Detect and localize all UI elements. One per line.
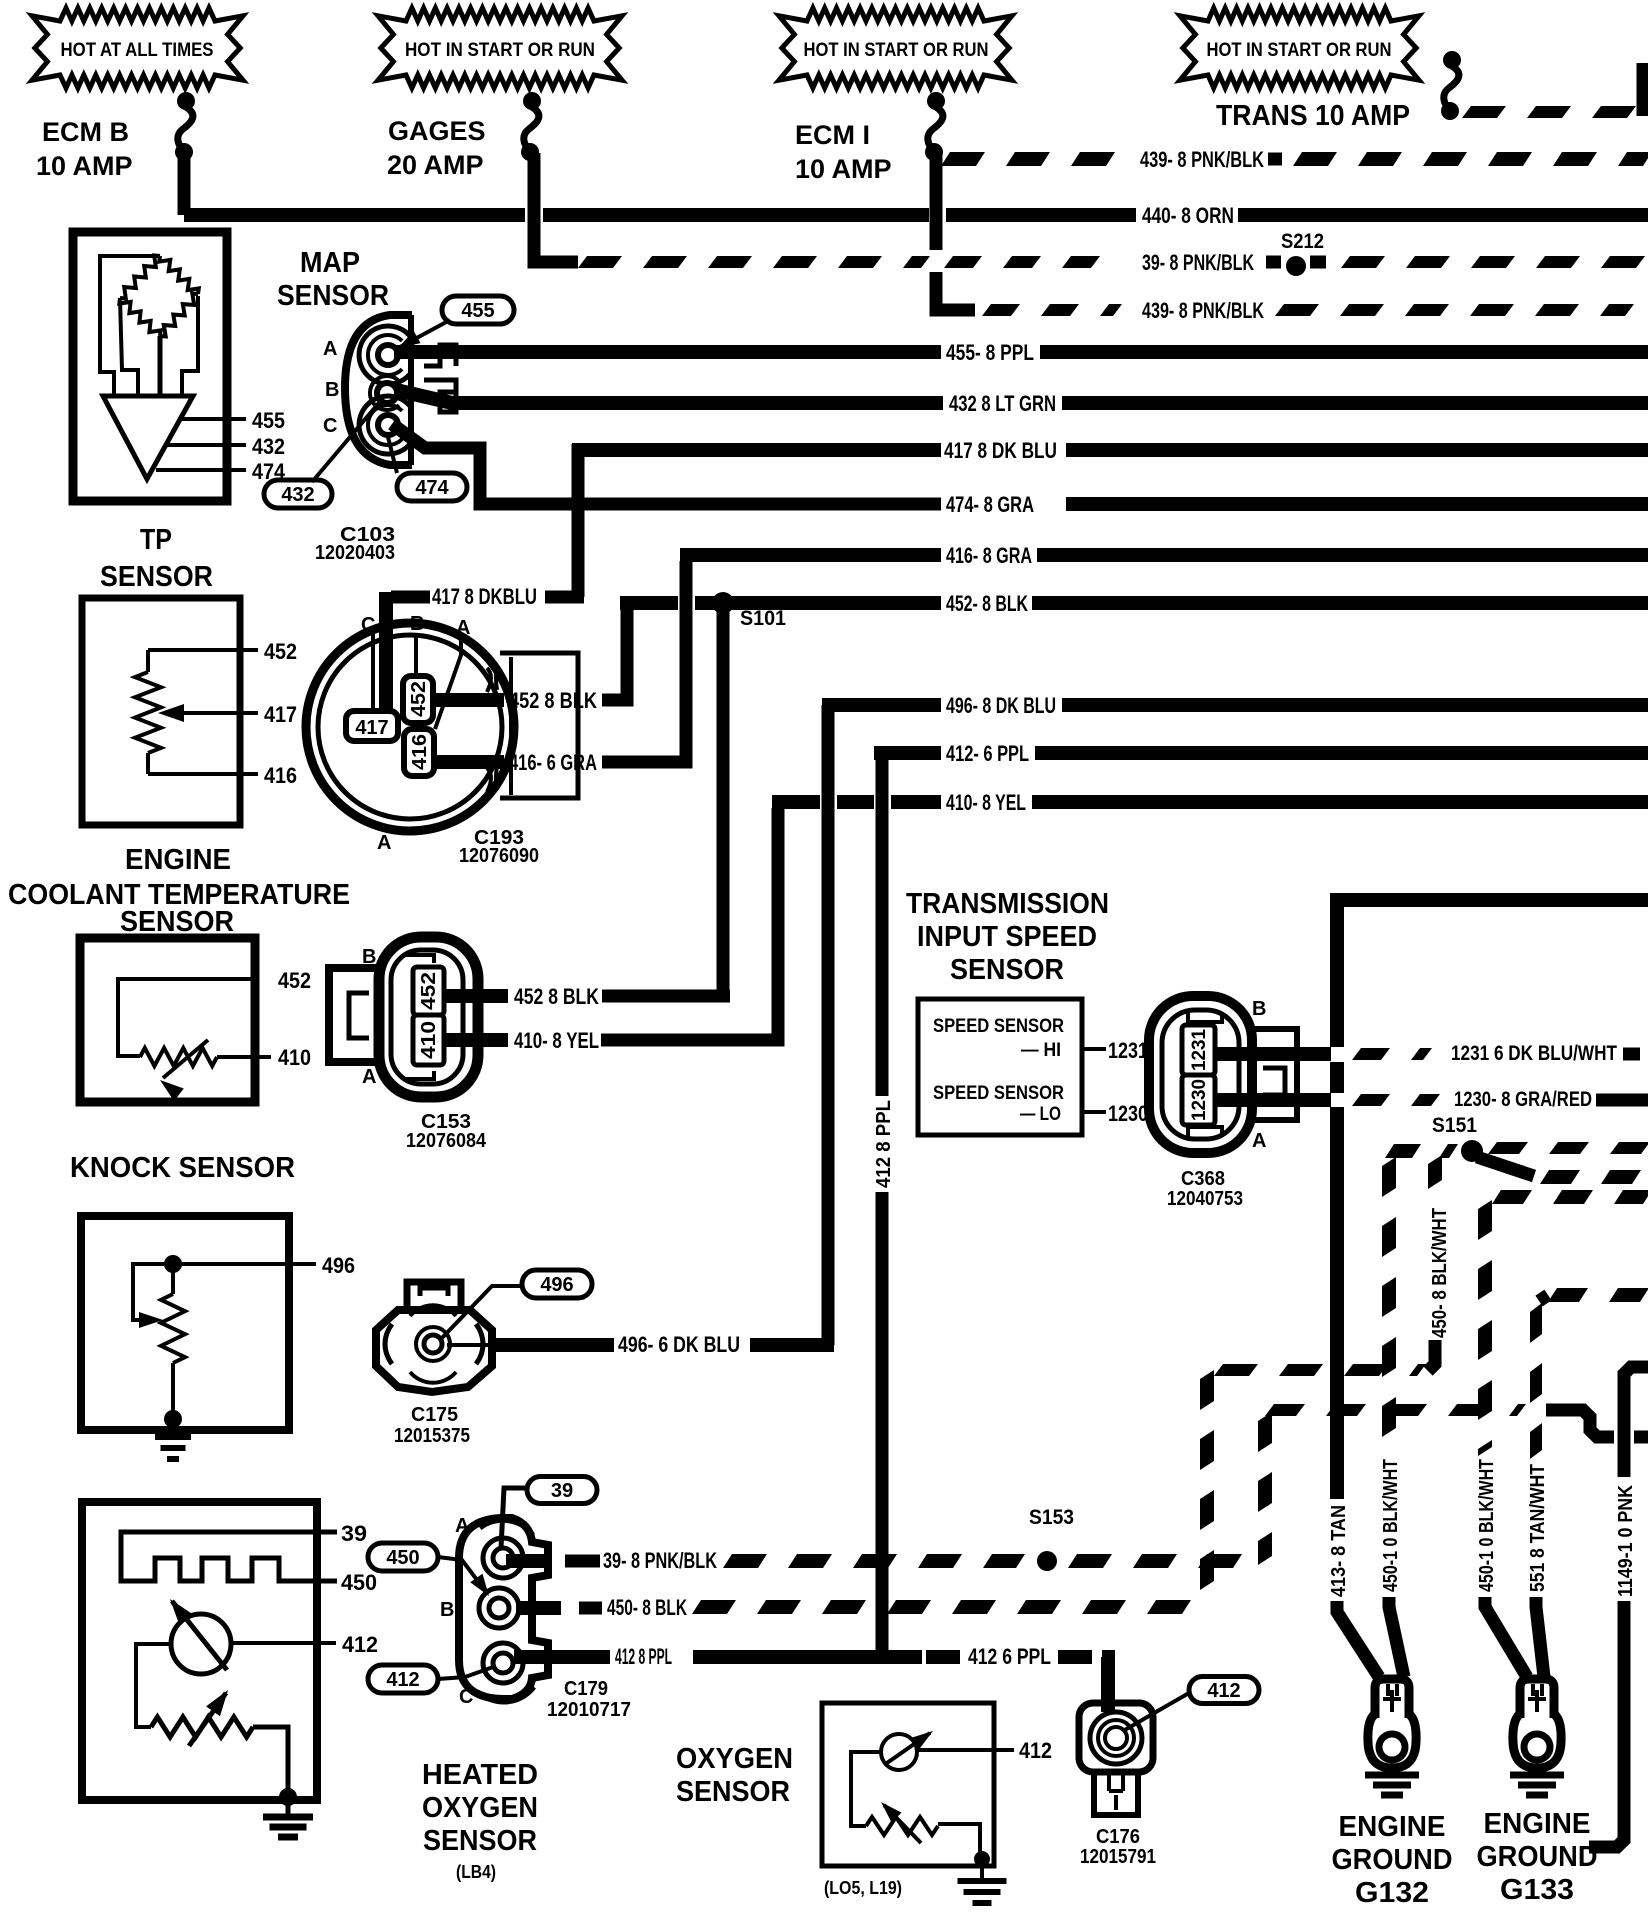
svg-text:G132: G132 bbox=[1355, 1877, 1429, 1909]
svg-text:HOT IN START OR RUN: HOT IN START OR RUN bbox=[1207, 40, 1392, 61]
svg-text:474: 474 bbox=[415, 477, 449, 499]
svg-text:412 8 PPL: 412 8 PPL bbox=[873, 1100, 895, 1188]
wire 450-8 BLK/WHT drop from S151 branch to lower network bbox=[1428, 1155, 1442, 1189]
svg-text:12020403: 12020403 bbox=[315, 542, 395, 564]
svg-text:410- 8 YEL: 410- 8 YEL bbox=[514, 1028, 599, 1053]
speed sensor lead lines bbox=[1082, 1047, 1106, 1051]
power label: HOT IN START OR RUN burst (ECM I) bbox=[779, 8, 1012, 88]
connector C368 body bbox=[1149, 996, 1252, 1153]
MAP bridge left loop wire bbox=[120, 298, 138, 394]
svg-text:551 8 TAN/WHT: 551 8 TAN/WHT bbox=[1527, 1464, 1549, 1592]
C368 top and bottom notches bbox=[1188, 1012, 1222, 1022]
pointer 412 to C176 pin bbox=[1123, 1693, 1189, 1731]
svg-text:SENSOR: SENSOR bbox=[950, 954, 1064, 986]
wire from ECM B fuse bbox=[178, 153, 191, 215]
svg-text:1231 6 DK BLU/WHT: 1231 6 DK BLU/WHT bbox=[1451, 1042, 1617, 1065]
svg-text:413- 8 TAN: 413- 8 TAN bbox=[1328, 1505, 1350, 1597]
HO2S lead 412 bbox=[231, 1641, 336, 1645]
svg-text:C175: C175 bbox=[411, 1404, 458, 1426]
svg-text:12015375: 12015375 bbox=[394, 1425, 470, 1447]
wire S101 drop to C153 452 bbox=[717, 609, 730, 996]
svg-text:455: 455 bbox=[461, 300, 494, 322]
C103 pin C bbox=[378, 415, 398, 435]
oval tag 450 bbox=[368, 1543, 438, 1571]
svg-text:417 8 DK BLU: 417 8 DK BLU bbox=[944, 438, 1057, 463]
pointer 39 to pin A bbox=[501, 1488, 527, 1548]
wire 416-8 GRA from C193 bbox=[432, 755, 504, 769]
svg-text:GAGES: GAGES bbox=[388, 116, 486, 146]
svg-text:TRANSMISSION: TRANSMISSION bbox=[906, 888, 1109, 920]
svg-text:A: A bbox=[362, 1066, 376, 1088]
svg-text:SENSOR: SENSOR bbox=[277, 280, 389, 312]
wire 432-8 LT GRN from C103 pin B bbox=[396, 390, 943, 403]
svg-text:1230: 1230 bbox=[1108, 1101, 1148, 1126]
svg-text:410: 410 bbox=[418, 1021, 440, 1059]
svg-text:GROUND: GROUND bbox=[1477, 1841, 1598, 1873]
wire 412-8 PPL from C179 pin C (solid) bbox=[514, 1650, 610, 1664]
svg-text:412: 412 bbox=[1019, 1738, 1052, 1763]
svg-text:416: 416 bbox=[264, 763, 297, 788]
svg-text:455: 455 bbox=[252, 408, 285, 433]
svg-text:(LO5, L19): (LO5, L19) bbox=[824, 1878, 902, 1898]
wire 551-8 TAN/WHT from edge down to G133 bbox=[1548, 1288, 1648, 1302]
C103 right retainer bracket bbox=[424, 345, 456, 366]
svg-text:452: 452 bbox=[278, 968, 311, 993]
svg-text:HOT IN START OR RUN: HOT IN START OR RUN bbox=[405, 40, 595, 61]
wire 417 down into C193 bbox=[379, 592, 393, 714]
wire 1231-8 DK BLU/WHT from C368 bbox=[1215, 1047, 1331, 1061]
svg-text:HOT AT ALL TIMES: HOT AT ALL TIMES bbox=[61, 40, 214, 61]
C153 left bracket bbox=[329, 968, 380, 1062]
svg-text:1231: 1231 bbox=[1108, 1038, 1148, 1063]
svg-text:C368: C368 bbox=[1181, 1168, 1225, 1190]
svg-text:B: B bbox=[440, 1599, 454, 1621]
svg-text:C: C bbox=[323, 415, 337, 437]
svg-text:C: C bbox=[361, 614, 375, 636]
svg-text:A: A bbox=[1252, 1130, 1266, 1152]
svg-text:A: A bbox=[377, 832, 391, 854]
C176 lower tail bbox=[1094, 1772, 1138, 1815]
svg-text:452 8 BLK: 452 8 BLK bbox=[514, 984, 599, 1009]
svg-text:416: 416 bbox=[409, 734, 431, 770]
TP wiper arrow 417 bbox=[172, 711, 258, 715]
MAP connector C103 body bbox=[345, 315, 412, 465]
svg-text:452: 452 bbox=[408, 681, 430, 717]
svg-text:450- 8 BLK/WHT: 450- 8 BLK/WHT bbox=[1429, 1208, 1451, 1338]
ECT thermistor circuit bbox=[118, 979, 251, 1056]
wire 417-8 DK BLU main run bbox=[572, 443, 941, 457]
C153 pin 452 box bbox=[413, 967, 444, 1015]
TP connector C193 outer circles bbox=[306, 623, 514, 831]
svg-text:SPEED SENSOR: SPEED SENSOR bbox=[933, 1016, 1064, 1037]
svg-text:G133: G133 bbox=[1500, 1874, 1574, 1906]
wire 412-8 PPL main run bbox=[874, 746, 941, 760]
wire 39 turns up at right bbox=[1258, 1412, 1272, 1565]
svg-text:— HI: — HI bbox=[1021, 1040, 1061, 1061]
MAP bridge outer loop wire bbox=[100, 256, 160, 394]
C179 pin B bbox=[489, 1598, 509, 1618]
wire 440-8 ORN (solid) bbox=[184, 208, 525, 222]
C175 center pin bbox=[424, 1335, 442, 1353]
svg-text:39: 39 bbox=[551, 1480, 573, 1502]
svg-text:20 AMP: 20 AMP bbox=[387, 150, 484, 180]
TP potentiometer bbox=[146, 650, 150, 672]
wire 496 vertical bbox=[822, 705, 835, 1345]
svg-text:S153: S153 bbox=[1029, 1506, 1074, 1529]
power label: HOT IN START OR RUN burst (GAGES) bbox=[378, 8, 622, 88]
svg-text:417: 417 bbox=[264, 702, 297, 727]
wire 39 dashed horizontal upper-right bbox=[1265, 1404, 1526, 1416]
ECT sensor box bbox=[80, 938, 255, 1102]
wire 410-8 YEL from C153 bbox=[446, 1033, 508, 1047]
C103 pin C arcs bbox=[359, 396, 411, 454]
wire 450 dashed right branch of S151 bbox=[1488, 1142, 1648, 1154]
svg-text:ENGINE: ENGINE bbox=[125, 844, 231, 876]
MAP amp output leads 455/432/474 bbox=[180, 417, 246, 421]
svg-text:A: A bbox=[323, 338, 337, 360]
wire 412 vertical (with inline rotated label) bbox=[876, 753, 889, 1096]
wire from GAGES fuse down to 39 circuit bbox=[534, 153, 578, 262]
svg-text:HEATED: HEATED bbox=[422, 1759, 538, 1791]
wire 413-8 TAN from right edge bbox=[1337, 900, 1648, 1047]
wire 452-8 BLK from C153 to S101 bbox=[444, 989, 508, 1003]
svg-text:OXYGEN: OXYGEN bbox=[422, 1792, 538, 1824]
C368 right bracket bbox=[1252, 1029, 1297, 1120]
svg-text:S212: S212 bbox=[1281, 230, 1324, 253]
knock connector C175 body bbox=[376, 1310, 492, 1392]
HO2S connector C179 body bbox=[459, 1518, 548, 1699]
wire 452-8 BLK from C193 bbox=[430, 693, 504, 707]
svg-text:12076084: 12076084 bbox=[406, 1130, 487, 1152]
C179 pin A bbox=[493, 1548, 513, 1568]
C103 pin A bbox=[378, 345, 398, 365]
svg-text:S101: S101 bbox=[740, 607, 786, 630]
oval tag 496 bbox=[522, 1270, 592, 1298]
wire 496-8 DK BLU main run bbox=[822, 698, 941, 712]
HO2S wire to ground bbox=[253, 1727, 288, 1793]
svg-text:10 AMP: 10 AMP bbox=[795, 154, 892, 184]
svg-text:1149-1 0 PNK: 1149-1 0 PNK bbox=[1615, 1485, 1637, 1597]
svg-text:12040753: 12040753 bbox=[1167, 1188, 1243, 1210]
MAP op-amp triangle bbox=[103, 396, 193, 479]
svg-text:455- 8 PPL: 455- 8 PPL bbox=[946, 340, 1034, 365]
svg-text:S151: S151 bbox=[1432, 1114, 1477, 1137]
svg-text:SENSOR: SENSOR bbox=[120, 906, 234, 938]
svg-text:450- 8 BLK: 450- 8 BLK bbox=[607, 1595, 687, 1620]
pointer 412 to pin C bbox=[438, 1666, 496, 1679]
wire 450-8 BLK from C179 pin B (dashed) bbox=[516, 1601, 561, 1615]
ECT connector C153 body bbox=[379, 937, 478, 1097]
svg-text:TRANS 10 AMP: TRANS 10 AMP bbox=[1216, 100, 1410, 132]
wire 439-8 PNK/BLK (upper dashed) bbox=[941, 152, 1115, 166]
svg-text:ECM B: ECM B bbox=[42, 117, 129, 147]
svg-text:ENGINE: ENGINE bbox=[1484, 1808, 1591, 1840]
C193 pin 452 box bbox=[403, 676, 433, 723]
C193 pin 416 box bbox=[404, 729, 434, 776]
wire from ECM I fuse down to 439 branch bbox=[930, 153, 943, 250]
svg-text:C179: C179 bbox=[564, 1678, 608, 1700]
wire 416-8 GRA main run bbox=[680, 548, 941, 562]
HO2S internal wire left bbox=[136, 1644, 171, 1727]
engine ground G133 lug bbox=[1520, 1679, 1554, 1718]
svg-text:410- 8 YEL: 410- 8 YEL bbox=[946, 790, 1026, 815]
svg-text:412 8 PPL: 412 8 PPL bbox=[615, 1644, 672, 1669]
svg-text:— LO: — LO bbox=[1020, 1104, 1061, 1125]
svg-text:439- 8 PNK/BLK: 439- 8 PNK/BLK bbox=[1142, 298, 1264, 323]
svg-text:452: 452 bbox=[418, 972, 440, 1010]
svg-text:C176: C176 bbox=[1096, 1826, 1140, 1848]
wire 474-8 GRA from C103 pin C bbox=[392, 424, 941, 504]
oval tag 412 (O2) bbox=[1189, 1677, 1259, 1704]
wire 439 from TRANS fuse (dashed, to right edge, up-turn) bbox=[1462, 106, 1636, 118]
wire 1149-1 0 PNK from edge bbox=[1624, 1367, 1648, 1477]
svg-text:450: 450 bbox=[386, 1547, 419, 1569]
power label: HOT AT ALL TIMES burst bbox=[32, 8, 243, 88]
pointer 496 to pin bbox=[440, 1286, 522, 1340]
wire 39-8 PNK/BLK from C179 pin A (dashed) bbox=[506, 1554, 549, 1568]
svg-text:450: 450 bbox=[341, 1570, 377, 1595]
wire 39-8 PNK/BLK (dashed) with splice S212 bbox=[578, 256, 930, 268]
O2 gauge circle bbox=[881, 1734, 917, 1770]
speed sensor box bbox=[918, 999, 1082, 1135]
fuse ECM B 10 AMP bbox=[177, 92, 195, 110]
wire 1230-8 GRA/RED from C368 bbox=[1215, 1093, 1331, 1107]
knock resistor bbox=[171, 1272, 175, 1294]
svg-text:1231: 1231 bbox=[1189, 1029, 1210, 1071]
svg-text:39- 8 PNK/BLK: 39- 8 PNK/BLK bbox=[603, 1548, 717, 1573]
svg-text:ENGINE: ENGINE bbox=[1339, 1811, 1446, 1843]
O2 wire to ground dot bbox=[938, 1824, 980, 1855]
svg-text:HOT IN START OR RUN: HOT IN START OR RUN bbox=[804, 40, 989, 61]
svg-text:B: B bbox=[362, 946, 376, 968]
svg-text:12076090: 12076090 bbox=[459, 845, 539, 867]
TP lead 452 bbox=[148, 648, 258, 652]
wire 413 diagonal into G132 bbox=[1337, 1601, 1379, 1677]
svg-text:412 6 PPL: 412 6 PPL bbox=[968, 1644, 1051, 1669]
svg-text:452: 452 bbox=[264, 639, 297, 664]
C175 inner detail arcs bbox=[385, 1324, 392, 1364]
C368 pin 1230 box bbox=[1182, 1075, 1215, 1125]
MAP bridge center wire bbox=[158, 336, 163, 394]
wire 439-8 PNK/BLK (lower dashed) bbox=[982, 304, 1122, 316]
knock ground bbox=[171, 1424, 176, 1437]
fuse GAGES 20 AMP bbox=[523, 92, 541, 110]
svg-text:417 8 DKBLU: 417 8 DKBLU bbox=[432, 584, 537, 609]
pointer 455 to pin A bbox=[400, 320, 450, 347]
C103 pin B bbox=[377, 383, 397, 403]
C103 pin A arcs bbox=[359, 326, 411, 384]
svg-text:ECM I: ECM I bbox=[795, 120, 870, 150]
C193 right bracket bbox=[500, 653, 578, 798]
svg-text:39: 39 bbox=[341, 1521, 367, 1546]
HO2S variable resistor bbox=[151, 1717, 253, 1737]
wire 452-8 BLK main run with splice S101 bbox=[620, 596, 678, 610]
wire 450 turns up at x=1207 bbox=[1200, 1370, 1214, 1590]
knock sensor box bbox=[81, 1216, 289, 1430]
svg-text:B: B bbox=[410, 613, 424, 635]
knock bottom junction dot bbox=[164, 1410, 182, 1428]
svg-text:SENSOR: SENSOR bbox=[676, 1776, 790, 1808]
svg-text:SENSOR: SENSOR bbox=[423, 1825, 537, 1857]
svg-text:1230: 1230 bbox=[1189, 1079, 1210, 1121]
TP sensor box bbox=[82, 598, 240, 825]
MAP sensor internal box bbox=[73, 232, 227, 501]
fuse ECM I 10 AMP bbox=[927, 92, 945, 110]
wire 417 vertical drop to TP sensor bbox=[572, 444, 585, 597]
C193 pin 417 box bbox=[346, 711, 398, 741]
splice S101 bbox=[712, 592, 734, 614]
knock piezo node dot bbox=[164, 1255, 182, 1273]
C153 pin 410 box bbox=[413, 1015, 444, 1065]
C175 top tabs bbox=[407, 1282, 461, 1307]
svg-text:439- 8 PNK/BLK: 439- 8 PNK/BLK bbox=[1140, 147, 1264, 172]
wire 450 dashed diagonal branch of S151 bbox=[1477, 1157, 1534, 1176]
svg-text:GROUND: GROUND bbox=[1332, 1844, 1453, 1876]
svg-text:B: B bbox=[1252, 998, 1266, 1020]
svg-text:474- 8 GRA: 474- 8 GRA bbox=[946, 492, 1034, 517]
svg-text:450-1 0 BLK/WHT: 450-1 0 BLK/WHT bbox=[1476, 1459, 1498, 1592]
svg-text:416- 8 GRA: 416- 8 GRA bbox=[946, 543, 1032, 568]
svg-text:417: 417 bbox=[355, 717, 388, 739]
svg-text:496- 8 DK BLU: 496- 8 DK BLU bbox=[946, 693, 1056, 718]
knock piezo bracket with arrow bbox=[133, 1264, 165, 1320]
wire 450 dashed left branch of S151 bbox=[1385, 1144, 1458, 1158]
svg-text:39- 8 PNK/BLK: 39- 8 PNK/BLK bbox=[1142, 250, 1254, 275]
oval tag 412 (heated O2) bbox=[368, 1665, 438, 1693]
svg-text:432: 432 bbox=[281, 484, 314, 506]
svg-text:10 AMP: 10 AMP bbox=[36, 151, 133, 181]
svg-text:INPUT SPEED: INPUT SPEED bbox=[917, 921, 1097, 953]
svg-text:452 8 BLK: 452 8 BLK bbox=[509, 688, 597, 713]
engine ground G132 lug bbox=[1375, 1679, 1409, 1718]
svg-text:432: 432 bbox=[252, 434, 285, 459]
wire 450-1 0 BLK/WHT vertical to G132 bbox=[1382, 1157, 1396, 1437]
wire 450-1 0 BLK/WHT (right) from edge to G133 bbox=[1492, 1190, 1648, 1204]
pointer 450 to pin B bbox=[438, 1557, 486, 1592]
svg-text:12015791: 12015791 bbox=[1080, 1846, 1156, 1868]
wire 410-8 YEL main run bbox=[772, 795, 820, 809]
svg-text:496: 496 bbox=[322, 1253, 355, 1278]
wire 496-8 DK BLU from C175 bbox=[494, 1338, 614, 1352]
svg-text:410: 410 bbox=[278, 1045, 311, 1070]
oval tag 39 bbox=[527, 1477, 597, 1504]
C193 seal marks bbox=[487, 666, 497, 692]
wire 455-8 PPL from C103 pin A bbox=[394, 345, 941, 359]
oval tag 455 bbox=[442, 296, 514, 324]
oval tag 474 bbox=[397, 473, 467, 501]
ECT variable arrow bbox=[163, 1040, 208, 1078]
O2 internal wire bbox=[851, 1752, 881, 1826]
TP lead 416 bbox=[148, 772, 258, 776]
svg-text:OXYGEN: OXYGEN bbox=[676, 1743, 793, 1775]
MAP bridge right loop wire bbox=[182, 296, 198, 394]
oxygen sensor box bbox=[822, 1703, 994, 1866]
svg-text:KNOCK SENSOR: KNOCK SENSOR bbox=[70, 1152, 295, 1184]
svg-text:SPEED SENSOR: SPEED SENSOR bbox=[933, 1083, 1064, 1104]
svg-text:TP: TP bbox=[140, 524, 172, 556]
svg-text:(LB4): (LB4) bbox=[456, 1862, 496, 1882]
C193 letter pointer lines bbox=[371, 634, 375, 710]
C153 top notch bbox=[404, 955, 434, 963]
svg-text:452- 8 BLK: 452- 8 BLK bbox=[946, 591, 1028, 616]
svg-text:412- 6 PPL: 412- 6 PPL bbox=[946, 741, 1029, 766]
HO2S heater lead 39 and pulse element bbox=[121, 1532, 337, 1581]
power label: HOT IN START OR RUN burst (TRANS) bbox=[1180, 8, 1419, 88]
heated oxygen sensor box bbox=[82, 1502, 317, 1800]
O2 lead 412 bbox=[917, 1748, 1014, 1752]
pointer 474 to pin C bbox=[388, 437, 397, 473]
C103 pin B arcs bbox=[370, 376, 399, 410]
svg-text:450-1 0 BLK/WHT: 450-1 0 BLK/WHT bbox=[1380, 1459, 1402, 1592]
svg-text:412: 412 bbox=[1207, 1680, 1240, 1702]
svg-text:496- 6 DK BLU: 496- 6 DK BLU bbox=[618, 1332, 740, 1357]
svg-text:C: C bbox=[459, 1686, 473, 1708]
svg-text:432 8 LT GRN: 432 8 LT GRN bbox=[949, 391, 1056, 416]
svg-text:416- 6 GRA: 416- 6 GRA bbox=[509, 750, 597, 775]
svg-text:12010717: 12010717 bbox=[547, 1699, 631, 1721]
svg-text:MAP: MAP bbox=[300, 247, 360, 279]
svg-text:1230- 8 GRA/RED: 1230- 8 GRA/RED bbox=[1454, 1088, 1592, 1111]
O2 variable resistor bbox=[866, 1817, 938, 1835]
O2 connector C176 body bbox=[1079, 1703, 1153, 1772]
svg-text:496: 496 bbox=[540, 1274, 573, 1296]
svg-text:412: 412 bbox=[386, 1669, 419, 1691]
pointer 432 to pin B bbox=[312, 398, 383, 482]
HO2S sense gauge circle bbox=[171, 1614, 231, 1674]
oval tag 432 bbox=[264, 480, 332, 508]
fuse TRANS 10 AMP bbox=[1443, 51, 1461, 69]
C368 pin 1231 box bbox=[1182, 1025, 1215, 1075]
svg-text:A: A bbox=[456, 617, 470, 639]
C179 pin C bbox=[493, 1653, 513, 1673]
svg-text:SENSOR: SENSOR bbox=[100, 561, 213, 593]
MAP bridge (wheatstone diamond) bbox=[120, 256, 160, 299]
svg-text:440- 8 ORN: 440- 8 ORN bbox=[1142, 203, 1234, 228]
svg-text:412: 412 bbox=[342, 1632, 378, 1657]
svg-text:B: B bbox=[325, 379, 339, 401]
svg-text:A: A bbox=[455, 1515, 469, 1537]
knock lead 496 bbox=[173, 1262, 316, 1266]
